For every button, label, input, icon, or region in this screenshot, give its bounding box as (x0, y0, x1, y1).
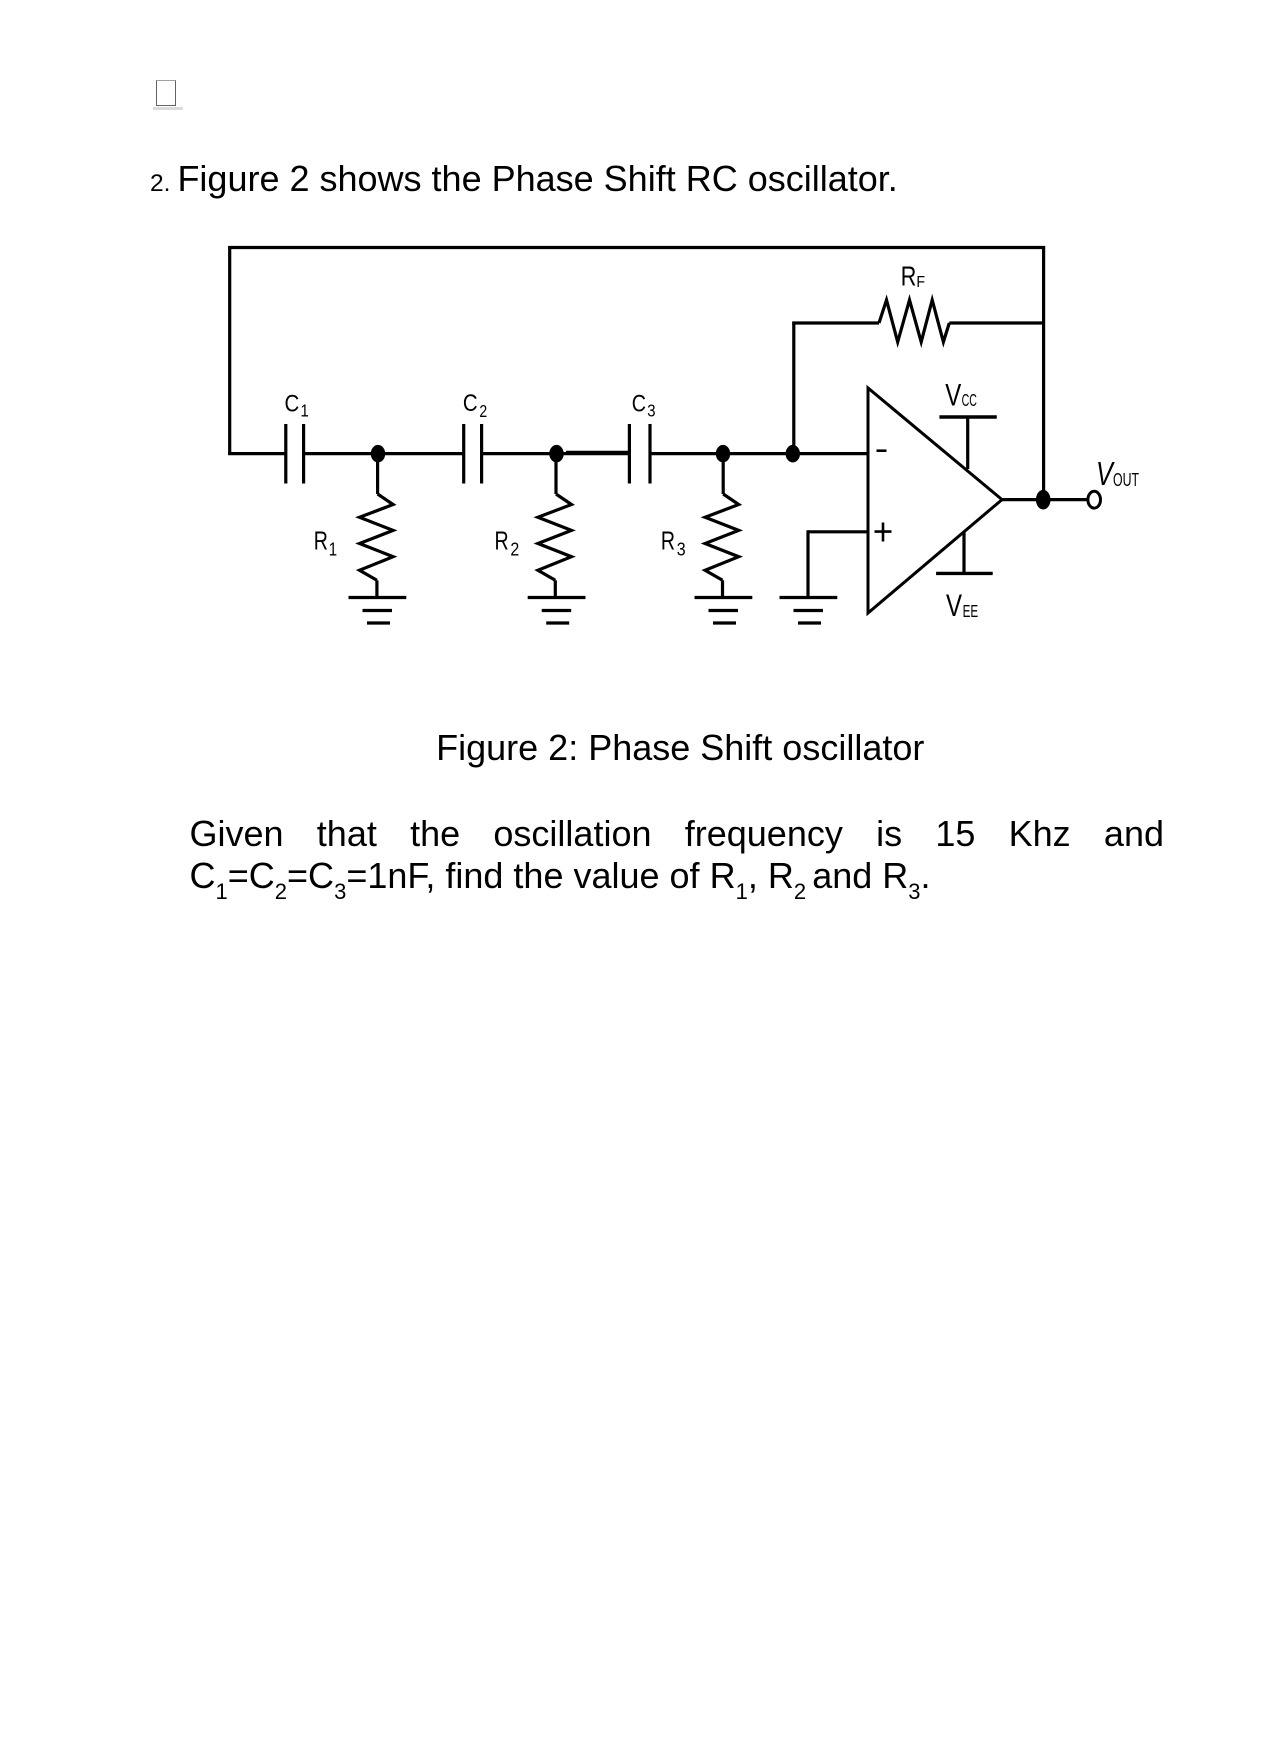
label RF (901, 262, 925, 292)
paragraph line 2 (190, 855, 931, 896)
svg-text:1: 1 (329, 539, 337, 560)
checkbox glyph (156, 80, 176, 105)
node dot 2 (549, 445, 563, 463)
circuit schematic SVG (200, 230, 1190, 690)
svg-text:V: V (946, 588, 962, 623)
svg-text:V: V (945, 377, 961, 412)
label R2 (495, 526, 520, 560)
svg-text:2: 2 (510, 538, 519, 560)
ground at non-inverting input (780, 598, 838, 624)
heading: 2. Figure 2 shows the Phase Shift RC oscillator. (150, 158, 898, 204)
wire: RF left horizontal (792, 321, 879, 324)
wire: non-inverting input (808, 530, 868, 597)
wire: main horizontal segment left of C1 (228, 452, 286, 455)
node dot RF junction (786, 445, 800, 463)
svg-text:1: 1 (301, 401, 309, 420)
op-amp U1 (868, 388, 1002, 613)
Vcc supply bar (939, 417, 996, 469)
svg-text:R: R (661, 526, 675, 555)
label R3 (661, 526, 686, 560)
label Vee (946, 588, 978, 623)
wire: thickened segment node2-C3 (566, 451, 628, 453)
ground under R2 (528, 598, 586, 624)
svg-text:CC: CC (962, 391, 978, 410)
ground under R3 (695, 598, 753, 624)
label R1 (314, 526, 337, 560)
label C2 (463, 390, 487, 422)
svg-text:OUT: OUT (1113, 471, 1139, 491)
wire: RF branch vertical (792, 322, 795, 454)
resistor R3 (705, 454, 739, 598)
svg-text:R: R (495, 526, 509, 555)
op-amp plus sign (875, 523, 892, 542)
svg-text:F: F (916, 273, 925, 291)
capacitor C2 (464, 424, 482, 484)
svg-text:C: C (463, 390, 478, 417)
wire: C1 to C2 (304, 452, 464, 455)
wire: top feedback (228, 246, 1045, 249)
wire: C3 to op-amp inverting input (650, 452, 868, 455)
capacitor C1 (286, 424, 304, 484)
resistor RF (879, 300, 949, 342)
wire: RF right horizontal (949, 321, 1043, 324)
caption: Figure 2: Phase Shift oscillator (190, 727, 1171, 768)
resistor R1 (360, 454, 394, 598)
ground under R1 (349, 598, 407, 624)
svg-text:C: C (285, 390, 300, 417)
label C3 (632, 389, 656, 420)
wire: right feedback vertical (1042, 246, 1045, 500)
label Vout (1096, 456, 1139, 493)
wire: C2 to C3 (482, 452, 630, 455)
label C1 (285, 390, 309, 421)
node dot output (1036, 490, 1051, 510)
svg-text:C: C (632, 389, 646, 416)
paragraph line 1 (justified) (190, 813, 1165, 854)
svg-text:EE: EE (963, 601, 979, 621)
faint artifact under checkbox (153, 107, 183, 110)
label Vcc (945, 377, 977, 412)
svg-text:3: 3 (677, 538, 686, 560)
Vee supply bar (936, 532, 993, 573)
node dot 1 (371, 445, 385, 463)
svg-text:3: 3 (647, 401, 655, 420)
svg-text:R: R (314, 526, 328, 555)
svg-text:R: R (901, 262, 917, 292)
wire: output (1002, 498, 1087, 501)
capacitor C3 (629, 424, 650, 484)
resistor R2 (538, 454, 572, 598)
op-amp minus sign (877, 449, 887, 452)
wire: left vertical (228, 246, 231, 455)
output terminal circle (1088, 491, 1101, 508)
svg-text:2: 2 (479, 403, 487, 422)
node dot 3 (716, 445, 730, 463)
